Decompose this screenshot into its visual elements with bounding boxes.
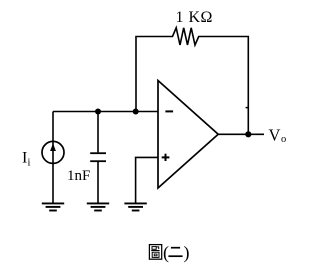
svg-text:1 KΩ: 1 KΩ bbox=[176, 9, 213, 26]
svg-text:o: o bbox=[281, 134, 286, 145]
svg-text:1nF: 1nF bbox=[67, 168, 90, 184]
svg-text:(: ( bbox=[163, 243, 169, 264]
svg-text:): ) bbox=[184, 243, 190, 264]
svg-text:V: V bbox=[269, 125, 281, 144]
svg-text:i: i bbox=[28, 158, 31, 169]
